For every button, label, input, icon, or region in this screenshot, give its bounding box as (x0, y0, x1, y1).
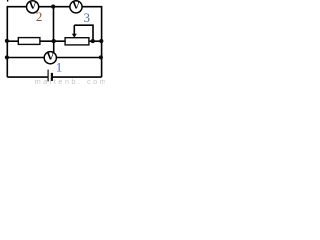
svg-text:1: 1 (56, 60, 63, 75)
svg-text:2: 2 (36, 9, 43, 24)
svg-text:maitenb. com: maitenb. com (35, 77, 106, 85)
svg-text:3: 3 (84, 10, 91, 25)
